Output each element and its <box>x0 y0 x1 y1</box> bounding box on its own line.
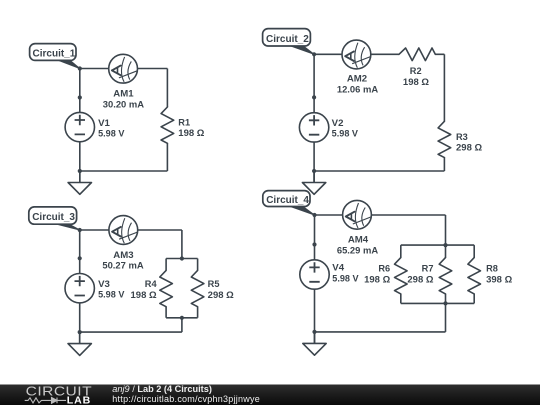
svg-text:5.98 V: 5.98 V <box>332 273 358 283</box>
svg-text:198 Ω: 198 Ω <box>131 290 157 300</box>
node C3 parallel bottom junction dot <box>180 316 184 320</box>
svg-text:anj9 / Lab 2 (4 Circuits): anj9 / Lab 2 (4 Circuits) <box>112 384 212 394</box>
wire R8 branch stubs <box>473 245 475 303</box>
wire ground stub C4 <box>314 332 316 343</box>
node C4 bottom-left junction dot <box>312 330 316 334</box>
wire R7 branch stubs <box>445 245 447 303</box>
svg-text:5.98 V: 5.98 V <box>332 128 358 138</box>
svg-text:12.06 mA: 12.06 mA <box>337 84 379 94</box>
wire source-bottom C2 <box>313 142 315 171</box>
wire feed bottom C3 <box>181 318 183 332</box>
resistor R6 <box>395 258 408 294</box>
ammeter AM1 <box>109 54 138 83</box>
svg-text:5.98 V: 5.98 V <box>98 289 124 299</box>
ammeter AM3 <box>109 216 138 245</box>
wire bottom C2 <box>314 170 444 172</box>
voltage source V1 <box>65 112 94 141</box>
svg-text:50.27 mA: 50.27 mA <box>102 261 144 271</box>
svg-text:Circuit_4: Circuit_4 <box>266 195 309 206</box>
svg-text:http://circuitlab.com/cvphn3pj: http://circuitlab.com/cvphn3pjjnwye <box>112 394 259 404</box>
wire bottom C1 <box>80 170 168 172</box>
svg-text:198 Ω: 198 Ω <box>403 77 429 87</box>
voltage source V2 <box>299 113 328 142</box>
svg-text:AM4: AM4 <box>348 235 368 245</box>
flag pointer Circuit_2 <box>288 45 314 54</box>
ammeter AM2 <box>342 40 371 69</box>
node A2 junction dot <box>312 52 316 56</box>
svg-text:R1: R1 <box>178 117 190 127</box>
wire top C2 <box>314 53 444 55</box>
svg-text:AM3: AM3 <box>113 250 133 260</box>
wire feed down C3 <box>181 230 183 259</box>
wire R6 branch stubs <box>400 245 402 303</box>
svg-text:V3: V3 <box>98 279 110 289</box>
wire bottom C4 <box>315 331 446 333</box>
wire source-bottom C4 <box>314 289 316 332</box>
svg-text:R8: R8 <box>486 264 498 274</box>
node A1 junction dot <box>78 66 82 70</box>
wire left rail C4 <box>314 215 316 260</box>
wire feed bottom C4 <box>445 303 447 332</box>
ground <box>302 171 325 194</box>
node C1 mid-left junction dot <box>78 95 82 99</box>
wire left rail C3 <box>79 230 81 274</box>
wire top C3 <box>80 229 182 231</box>
svg-text:30.20 mA: 30.20 mA <box>103 99 145 109</box>
wire left rail C1 <box>79 69 81 113</box>
wire R5 branch stubs <box>197 259 199 318</box>
svg-text:298 Ω: 298 Ω <box>456 143 482 153</box>
resistor R1 <box>161 107 174 143</box>
resistor R2 <box>399 48 435 61</box>
svg-text:198 Ω: 198 Ω <box>364 275 390 285</box>
label Circuit_2 <box>263 29 311 46</box>
node C3 bottom-left junction dot <box>78 330 82 334</box>
ground <box>68 332 91 355</box>
svg-text:198 Ω: 198 Ω <box>178 128 204 138</box>
wire left rail C2 <box>313 54 315 112</box>
node C3 parallel top junction dot <box>180 256 184 260</box>
svg-text:Circuit_3: Circuit_3 <box>32 212 75 223</box>
svg-text:V2: V2 <box>332 118 344 128</box>
node C4 mid-left junction dot <box>312 242 316 246</box>
svg-text:398 Ω: 398 Ω <box>486 275 512 285</box>
resistor R3 <box>438 121 451 157</box>
flag pointer Circuit_1 <box>54 59 80 69</box>
wire right rail lower C2 <box>443 158 445 171</box>
node C4 parallel bottom junction dot <box>443 301 447 305</box>
wire parallel top rail C4 <box>401 244 474 246</box>
svg-text:65.29 mA: 65.29 mA <box>337 246 379 256</box>
wire top C4 <box>315 214 446 216</box>
svg-text:Circuit_1: Circuit_1 <box>33 49 76 60</box>
wire ground stub C3 <box>79 332 81 343</box>
wire source-bottom C3 <box>79 303 81 332</box>
wire right rail lower C1 <box>166 143 168 171</box>
node A4 junction dot <box>312 213 316 217</box>
wire parallel top rail C3 <box>166 258 198 260</box>
svg-text:298 Ω: 298 Ω <box>208 290 234 300</box>
wire feed down C4 <box>445 215 447 245</box>
label Circuit_3 <box>29 207 77 224</box>
wire top C1 <box>80 68 168 70</box>
flag pointer Circuit_3 <box>54 223 80 230</box>
ground <box>303 332 326 355</box>
wire bottom C3 <box>80 331 182 333</box>
resistor R4 <box>160 270 173 306</box>
flag pointer Circuit_4 <box>288 206 315 215</box>
label Circuit_4 <box>263 191 310 207</box>
wire parallel bottom rail C4 <box>401 302 474 304</box>
svg-text:R5: R5 <box>208 279 220 289</box>
svg-text:AM2: AM2 <box>347 74 367 84</box>
voltage source V4 <box>300 260 329 289</box>
node C1 bottom-left junction dot <box>78 169 82 173</box>
node C2 mid-left junction dot <box>312 95 316 99</box>
wire source-bottom C1 <box>79 142 81 171</box>
svg-text:5.98 V: 5.98 V <box>98 128 124 138</box>
footer bar <box>0 385 540 405</box>
ammeter AM4 <box>343 200 372 229</box>
logo schematic squiggle (resistor + diode) <box>25 398 66 404</box>
label Circuit_1 <box>30 44 76 61</box>
ground <box>68 171 91 194</box>
svg-text:LAB: LAB <box>67 395 91 405</box>
svg-text:298 Ω: 298 Ω <box>407 274 433 284</box>
svg-text:R2: R2 <box>410 66 422 76</box>
wire ground stub C2 <box>313 171 315 183</box>
node C3 mid-left junction dot <box>78 256 82 260</box>
wire right rail upper C1 <box>166 69 168 108</box>
node C4 parallel top junction dot <box>443 243 447 247</box>
wire ground stub C1 <box>79 171 81 183</box>
node A3 junction dot <box>78 228 82 232</box>
svg-text:R3: R3 <box>456 132 468 142</box>
node C2 bottom-left junction dot <box>312 169 316 173</box>
wire right rail upper C2 <box>443 54 445 121</box>
resistor R5 <box>191 270 204 306</box>
voltage source V3 <box>65 274 94 303</box>
resistor R8 <box>468 258 481 294</box>
wire R4 branch stubs <box>165 259 167 318</box>
svg-text:R4: R4 <box>145 279 157 289</box>
resistor R7 <box>439 258 452 294</box>
svg-text:Circuit_2: Circuit_2 <box>266 34 309 45</box>
svg-text:AM1: AM1 <box>113 89 133 99</box>
svg-text:R6: R6 <box>378 263 390 273</box>
wire parallel bottom rail C3 <box>166 317 198 319</box>
svg-text:R7: R7 <box>422 264 434 274</box>
svg-text:V4: V4 <box>332 263 344 273</box>
svg-text:V1: V1 <box>98 118 110 128</box>
